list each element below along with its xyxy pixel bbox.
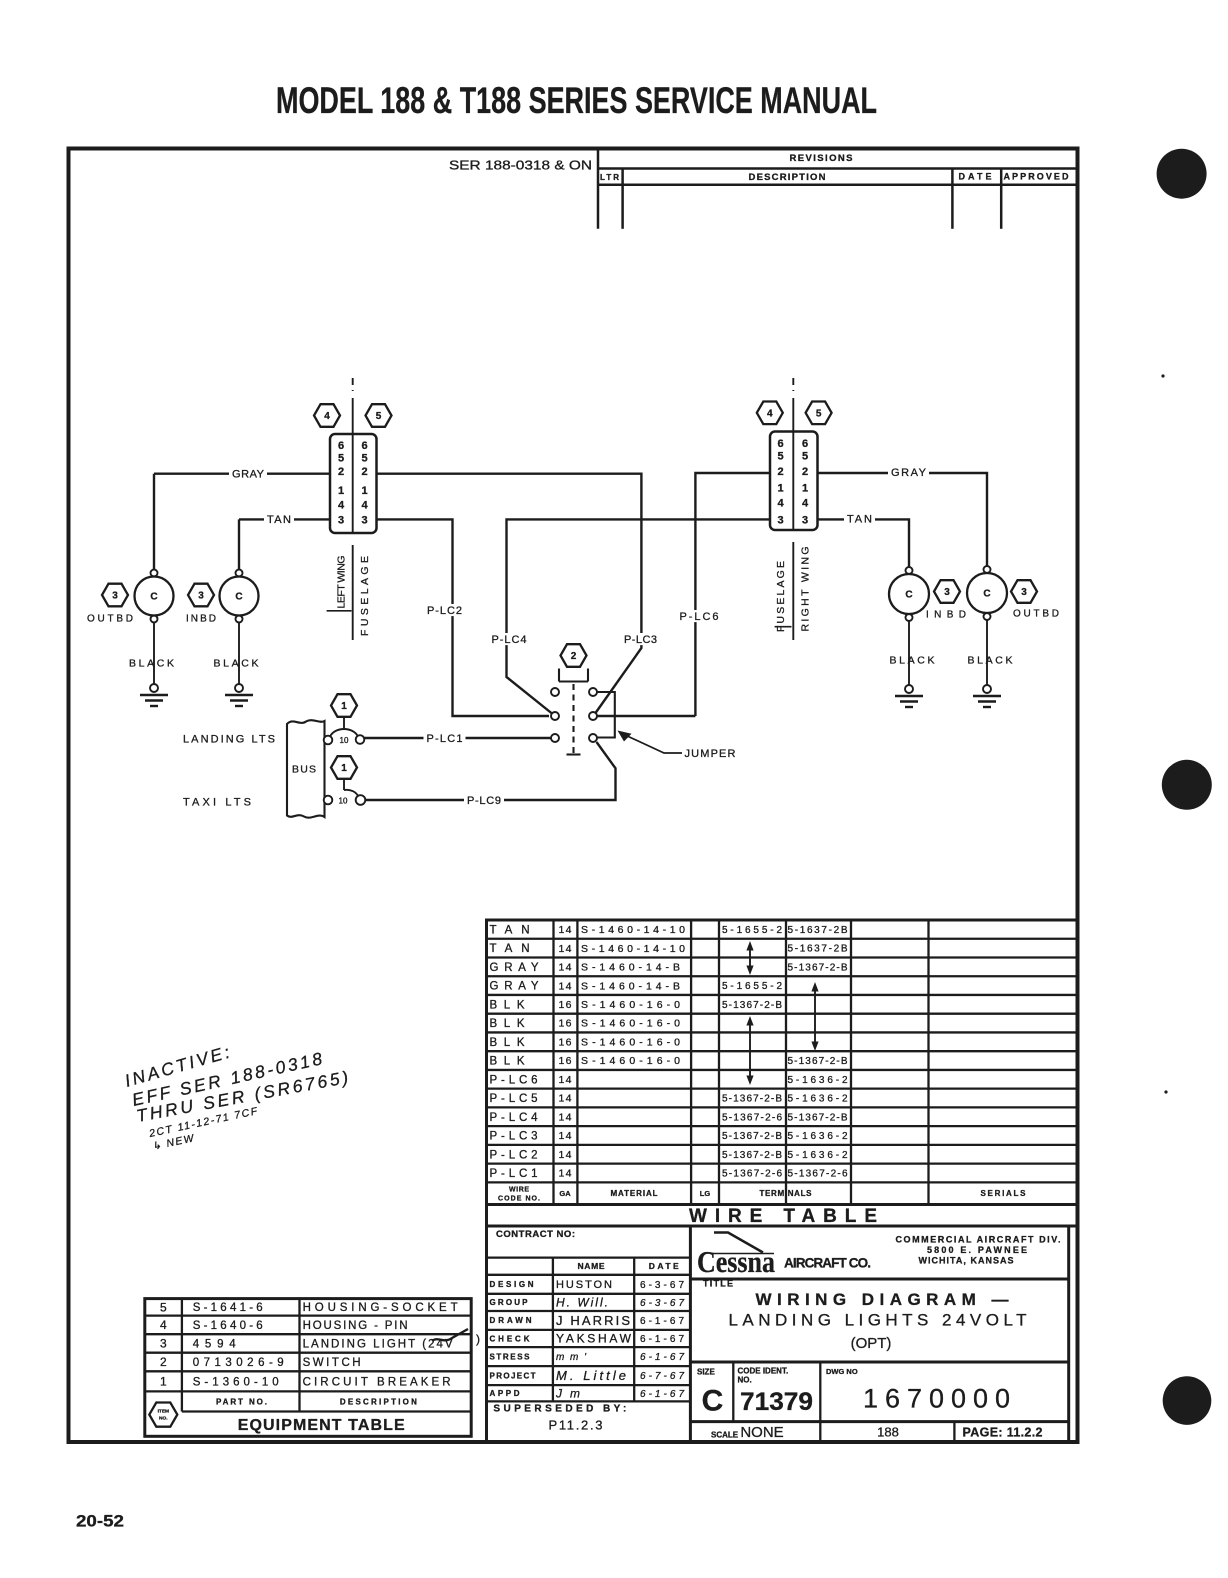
svg-text:1: 1 xyxy=(802,482,808,494)
svg-text:MODEL 188 & T188 SERIES SERVIC: MODEL 188 & T188 SERIES SERVICE MANUAL xyxy=(276,80,877,121)
svg-text:LANDING LIGHT (24V: LANDING LIGHT (24V xyxy=(303,1339,453,1351)
svg-text:14: 14 xyxy=(559,1074,572,1086)
svg-text:BLACK: BLACK xyxy=(890,655,935,667)
svg-text:WICHITA, KANSAS: WICHITA, KANSAS xyxy=(919,1256,1014,1266)
svg-text:WIRING DIAGRAM —: WIRING DIAGRAM — xyxy=(756,1290,1009,1309)
svg-text:JUMPER: JUMPER xyxy=(685,748,736,760)
svg-text:OUTBD: OUTBD xyxy=(1013,609,1059,620)
svg-text:1: 1 xyxy=(338,485,344,497)
svg-text:C: C xyxy=(905,590,912,601)
svg-text:GRAY: GRAY xyxy=(232,469,265,481)
svg-text:3: 3 xyxy=(198,591,204,602)
svg-text:GA: GA xyxy=(559,1189,571,1198)
svg-text:2: 2 xyxy=(777,466,783,478)
svg-text:2: 2 xyxy=(160,1355,167,1369)
svg-text:P-LC6: P-LC6 xyxy=(680,611,719,623)
svg-text:5-1637-2B: 5-1637-2B xyxy=(788,925,848,936)
svg-text:CODE IDENT.: CODE IDENT. xyxy=(738,1366,789,1375)
svg-text:P11.2.3: P11.2.3 xyxy=(549,1418,603,1433)
svg-text:COMMERCIAL AIRCRAFT DIV.: COMMERCIAL AIRCRAFT DIV. xyxy=(896,1235,1061,1245)
svg-text:5-1367-2-B: 5-1367-2-B xyxy=(788,1112,848,1123)
svg-text:SERIALS: SERIALS xyxy=(981,1189,1027,1198)
svg-text:3: 3 xyxy=(777,514,783,526)
svg-text:4: 4 xyxy=(361,499,368,511)
svg-text:GRAY: GRAY xyxy=(891,467,927,479)
svg-text:4: 4 xyxy=(777,497,784,509)
svg-text:5-1367-2-B: 5-1367-2-B xyxy=(722,1000,782,1011)
svg-text:3: 3 xyxy=(1021,587,1027,598)
svg-text:SCALE: SCALE xyxy=(711,1430,739,1439)
svg-text:CONTRACT NO:: CONTRACT NO: xyxy=(496,1229,575,1240)
svg-text:P-LC5: P-LC5 xyxy=(490,1093,538,1105)
svg-text:10: 10 xyxy=(340,736,349,745)
svg-text:): ) xyxy=(476,1332,480,1346)
svg-text:4: 4 xyxy=(767,408,773,419)
svg-text:REVISIONS: REVISIONS xyxy=(790,153,853,164)
svg-text:TAN: TAN xyxy=(490,924,530,936)
svg-text:5: 5 xyxy=(376,411,382,422)
svg-text:TERMINALS: TERMINALS xyxy=(760,1189,813,1198)
svg-text:5-1637-2B: 5-1637-2B xyxy=(788,944,848,955)
svg-text:4: 4 xyxy=(338,499,345,511)
svg-text:BLACK: BLACK xyxy=(968,655,1013,667)
svg-text:14: 14 xyxy=(559,1111,572,1123)
svg-text:C: C xyxy=(702,1385,724,1418)
svg-text:2: 2 xyxy=(338,466,344,478)
svg-text:TITLE: TITLE xyxy=(703,1279,733,1289)
svg-text:1: 1 xyxy=(341,763,347,774)
svg-text:LG: LG xyxy=(700,1189,711,1198)
svg-text:CODE NO.: CODE NO. xyxy=(498,1195,540,1202)
svg-text:1670000: 1670000 xyxy=(863,1384,1010,1414)
svg-text:14: 14 xyxy=(559,980,572,992)
svg-text:4: 4 xyxy=(324,411,330,422)
svg-text:BLK: BLK xyxy=(490,999,525,1011)
svg-text:SER 188-0318 & ON: SER 188-0318 & ON xyxy=(449,159,592,173)
svg-text:SUPERSEDED BY:: SUPERSEDED BY: xyxy=(493,1404,626,1415)
svg-text:LEFT WING: LEFT WING xyxy=(336,556,348,609)
svg-text:SIZE: SIZE xyxy=(697,1367,715,1376)
svg-text:TAN: TAN xyxy=(267,514,291,526)
svg-text:5: 5 xyxy=(361,452,367,464)
svg-text:5-1367-2-B: 5-1367-2-B xyxy=(722,1150,782,1161)
svg-text:NONE: NONE xyxy=(740,1424,783,1441)
svg-text:(OPT): (OPT) xyxy=(851,1335,892,1352)
svg-text:P-LC9: P-LC9 xyxy=(467,795,501,807)
svg-text:BLK: BLK xyxy=(490,1056,525,1068)
svg-text:16: 16 xyxy=(559,1055,572,1067)
svg-text:16: 16 xyxy=(559,1037,572,1049)
svg-text:NAME: NAME xyxy=(578,1261,605,1271)
svg-text:Cessna: Cessna xyxy=(697,1244,775,1279)
svg-text:14: 14 xyxy=(559,943,572,955)
svg-text:2: 2 xyxy=(571,651,577,662)
svg-text:DWG NO: DWG NO xyxy=(826,1367,858,1376)
svg-text:14: 14 xyxy=(559,1149,572,1161)
svg-text:5-1367-2-B: 5-1367-2-B xyxy=(722,1131,782,1142)
svg-text:ITEM: ITEM xyxy=(158,1409,169,1415)
svg-text:BUS: BUS xyxy=(292,764,316,776)
svg-text:6: 6 xyxy=(338,440,344,452)
svg-text:5-1367-2-B: 5-1367-2-B xyxy=(788,962,848,973)
svg-text:3: 3 xyxy=(944,587,950,598)
svg-text:20-52: 20-52 xyxy=(76,1513,124,1531)
svg-text:H. Will.: H. Will. xyxy=(556,1296,608,1310)
svg-text:5: 5 xyxy=(160,1300,167,1314)
svg-text:J HARRIS: J HARRIS xyxy=(556,1313,630,1328)
svg-text:5: 5 xyxy=(816,408,822,419)
svg-text:16: 16 xyxy=(559,1018,572,1030)
svg-text:C: C xyxy=(150,592,157,603)
svg-text:LTR: LTR xyxy=(600,173,619,182)
svg-text:STRESS: STRESS xyxy=(490,1352,531,1361)
svg-text:1: 1 xyxy=(160,1375,167,1389)
svg-text:P-LC3: P-LC3 xyxy=(624,634,657,646)
svg-text:APPROVED: APPROVED xyxy=(1004,172,1070,182)
svg-text:71379: 71379 xyxy=(740,1388,813,1416)
svg-text:P-LC1: P-LC1 xyxy=(490,1168,538,1180)
svg-text:5-1367-2-B: 5-1367-2-B xyxy=(788,1056,848,1067)
svg-text:P-LC6: P-LC6 xyxy=(490,1074,538,1086)
svg-text:14: 14 xyxy=(559,1168,572,1180)
svg-text:TAN: TAN xyxy=(847,513,872,525)
svg-text:PART NO.: PART NO. xyxy=(216,1397,267,1406)
svg-text:3: 3 xyxy=(802,514,808,526)
svg-text:16: 16 xyxy=(559,999,572,1011)
svg-text:10: 10 xyxy=(339,796,348,805)
svg-text:NO.: NO. xyxy=(738,1375,752,1384)
svg-text:5-1367-2-B: 5-1367-2-B xyxy=(722,1094,782,1105)
svg-text:5: 5 xyxy=(338,452,344,464)
svg-text:PAGE: 11.2.2: PAGE: 11.2.2 xyxy=(963,1425,1043,1439)
svg-text:OUTBD: OUTBD xyxy=(87,614,133,625)
svg-text:P-LC2: P-LC2 xyxy=(490,1149,538,1161)
svg-text:P-LC2: P-LC2 xyxy=(427,605,462,617)
svg-text:6: 6 xyxy=(777,438,783,450)
svg-text:5800 E. PAWNEE: 5800 E. PAWNEE xyxy=(927,1245,1027,1255)
svg-text:GROUP: GROUP xyxy=(490,1298,529,1307)
svg-text:5: 5 xyxy=(777,450,783,462)
svg-text:14: 14 xyxy=(559,1130,572,1142)
svg-text:14: 14 xyxy=(559,924,572,936)
svg-text:P-LC4: P-LC4 xyxy=(492,634,527,646)
svg-text:2: 2 xyxy=(802,466,808,478)
svg-text:EQUIPMENT TABLE: EQUIPMENT TABLE xyxy=(238,1417,405,1434)
svg-text:5-1367-2-6: 5-1367-2-6 xyxy=(788,1169,848,1180)
svg-text:3: 3 xyxy=(338,514,344,526)
svg-text:P-LC1: P-LC1 xyxy=(427,733,463,745)
svg-text:HOUSING - PIN: HOUSING - PIN xyxy=(303,1320,408,1332)
svg-text:P-LC3: P-LC3 xyxy=(490,1131,538,1143)
svg-text:BLACK: BLACK xyxy=(129,658,174,670)
svg-text:BLK: BLK xyxy=(490,1018,525,1030)
svg-text:14: 14 xyxy=(559,962,572,974)
svg-text:PROJECT: PROJECT xyxy=(490,1371,536,1380)
svg-text:NO.: NO. xyxy=(159,1416,168,1422)
svg-text:5: 5 xyxy=(802,450,808,462)
svg-text:3: 3 xyxy=(361,514,367,526)
svg-text:4: 4 xyxy=(802,497,809,509)
svg-text:TAN: TAN xyxy=(490,943,530,955)
svg-text:INBD: INBD xyxy=(186,614,216,625)
svg-text:6: 6 xyxy=(361,440,367,452)
svg-text:5-1367-2-6: 5-1367-2-6 xyxy=(722,1169,782,1180)
svg-text:3: 3 xyxy=(160,1337,167,1351)
svg-text:1: 1 xyxy=(777,482,783,494)
svg-text:S-1360-10: S-1360-10 xyxy=(193,1376,279,1388)
svg-text:DESCRIPTION: DESCRIPTION xyxy=(749,172,826,183)
svg-text:3: 3 xyxy=(112,591,118,602)
svg-text:AIRCRAFT CO.: AIRCRAFT CO. xyxy=(784,1256,871,1271)
svg-text:4: 4 xyxy=(160,1318,167,1332)
svg-text:1: 1 xyxy=(341,701,347,712)
svg-text:BLK: BLK xyxy=(490,1037,525,1049)
svg-text:6: 6 xyxy=(802,438,808,450)
svg-text:P-LC4: P-LC4 xyxy=(490,1112,539,1124)
svg-text:CIRCUIT BREAKER: CIRCUIT BREAKER xyxy=(303,1376,451,1388)
svg-text:14: 14 xyxy=(559,1093,572,1105)
svg-text:MATERIAL: MATERIAL xyxy=(611,1189,658,1198)
svg-text:C: C xyxy=(983,589,990,600)
svg-text:188: 188 xyxy=(877,1425,899,1440)
svg-text:C: C xyxy=(235,592,242,603)
svg-text:YAKSHAW: YAKSHAW xyxy=(556,1332,632,1346)
svg-text:5-1367-2-6: 5-1367-2-6 xyxy=(722,1112,782,1123)
svg-text:LANDING LTS: LANDING LTS xyxy=(183,733,275,745)
svg-text:2: 2 xyxy=(361,466,367,478)
svg-text:DESCRIPTION: DESCRIPTION xyxy=(340,1397,417,1406)
svg-text:BLACK: BLACK xyxy=(214,658,259,670)
svg-text:1: 1 xyxy=(361,485,367,497)
svg-text:0713026-9: 0713026-9 xyxy=(193,1357,284,1369)
svg-text:WIRE: WIRE xyxy=(509,1186,529,1193)
svg-text:WIRE TABLE: WIRE TABLE xyxy=(689,1206,877,1227)
